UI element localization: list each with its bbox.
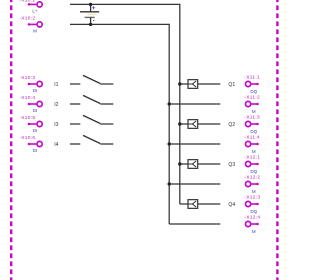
svg-text:I3: I3: [54, 122, 58, 128]
svg-text:Q1: Q1: [228, 82, 235, 88]
svg-text:-X10:2: -X10:2: [19, 16, 35, 22]
switch for input I1: [70, 75, 113, 84]
wire Q3 output: [198, 163, 221, 165]
svg-text:-X12:3: -X12:3: [244, 195, 260, 201]
terminal -X12:1: [244, 155, 260, 174]
svg-text:DI: DI: [33, 148, 38, 153]
svg-text:Q4: Q4: [228, 202, 235, 208]
bus L+ vertical: [179, 4, 181, 204]
driver box Q2: [188, 120, 198, 129]
terminal -X12:3: [244, 195, 260, 214]
svg-text:-X12:4: -X12:4: [244, 215, 260, 221]
svg-text:DQ: DQ: [250, 169, 257, 174]
svg-text:DQ: DQ: [250, 209, 257, 214]
svg-text:-X11:1: -X11:1: [244, 75, 260, 81]
panel border right (dashed): [276, 0, 278, 280]
svg-text:-X11:3: -X11:3: [244, 115, 260, 121]
svg-text:I4: I4: [54, 142, 58, 148]
svg-text:I2: I2: [54, 102, 58, 108]
switch for input I2: [70, 95, 113, 104]
panel border left (dashed): [10, 0, 12, 280]
svg-text:+: +: [92, 5, 96, 12]
driver box Q3: [188, 160, 198, 169]
junction L+ bus / Q3: [178, 162, 181, 165]
wire M branch row 104: [169, 103, 220, 105]
svg-text:M: M: [252, 189, 256, 194]
svg-text:DI: DI: [33, 128, 38, 133]
terminal -X11:3: [244, 115, 260, 134]
junction M bus row 104: [168, 102, 171, 105]
junction battery / M rail: [89, 23, 92, 26]
junction L+ bus / Q2: [178, 122, 181, 125]
wire L+ branch to Q4: [180, 203, 188, 205]
junction battery / L+ rail: [89, 3, 92, 6]
wire L+ branch to Q1: [180, 83, 188, 85]
svg-text:-X10:6: -X10:6: [19, 135, 35, 141]
svg-text:Q3: Q3: [228, 162, 235, 168]
driver box Q4: [188, 200, 198, 209]
switch for input I4: [70, 135, 113, 144]
svg-text:Q2: Q2: [228, 122, 235, 128]
svg-text:I1: I1: [54, 82, 58, 88]
junction M bus row 184: [168, 182, 171, 185]
svg-text:L+: L+: [32, 9, 38, 14]
svg-text:DQ: DQ: [250, 129, 257, 134]
svg-text:DQ: DQ: [250, 89, 257, 94]
svg-text:-X10:3: -X10:3: [19, 75, 35, 81]
svg-text:M: M: [252, 229, 256, 234]
wire L+ rail top: [70, 3, 180, 5]
wire M branch row 224: [169, 223, 220, 225]
svg-text:-X10:1: -X10:1: [19, 0, 35, 3]
svg-text:M: M: [252, 109, 256, 114]
svg-text:DI: DI: [33, 88, 38, 93]
svg-text:-: -: [93, 18, 95, 24]
terminal -X11:2: [244, 95, 260, 114]
switch for input I3: [70, 115, 113, 124]
svg-text:-X10:5: -X10:5: [19, 115, 35, 121]
wire M branch row 144: [169, 143, 220, 145]
terminal -X10:1: [19, 0, 42, 14]
driver box Q1: [188, 80, 198, 89]
terminal -X11:4: [244, 135, 260, 154]
terminal -X10:5: [19, 115, 42, 133]
svg-text:DI: DI: [33, 108, 38, 113]
wire Q1 output: [198, 83, 221, 85]
wire Q4 output: [198, 203, 221, 205]
terminal -X10:2: [19, 16, 42, 34]
svg-text:M: M: [33, 29, 37, 34]
junction M bus row 144: [168, 142, 171, 145]
terminal -X10:4: [19, 95, 42, 113]
battery G1: [80, 4, 99, 24]
wire M branch row 184: [169, 183, 220, 185]
wire L+ branch to Q2: [180, 123, 188, 125]
svg-text:-X11:4: -X11:4: [244, 135, 260, 141]
svg-text:-X11:2: -X11:2: [244, 95, 260, 101]
terminal -X12:4: [244, 215, 260, 234]
svg-text:M: M: [252, 149, 256, 154]
wire L+ branch to Q3: [180, 163, 188, 165]
svg-text:-X12:2: -X12:2: [244, 175, 260, 181]
terminal -X10:6: [19, 135, 42, 153]
svg-text:-X10:4: -X10:4: [19, 95, 35, 101]
bus M vertical: [168, 24, 170, 224]
wire Q2 output: [198, 123, 221, 125]
junction L+ bus / Q1: [178, 82, 181, 85]
wire M rail top: [70, 23, 169, 25]
svg-text:-X12:1: -X12:1: [244, 155, 260, 161]
terminal -X10:3: [19, 75, 42, 93]
terminal -X11:1: [244, 75, 260, 94]
terminal -X12:2: [244, 175, 260, 194]
